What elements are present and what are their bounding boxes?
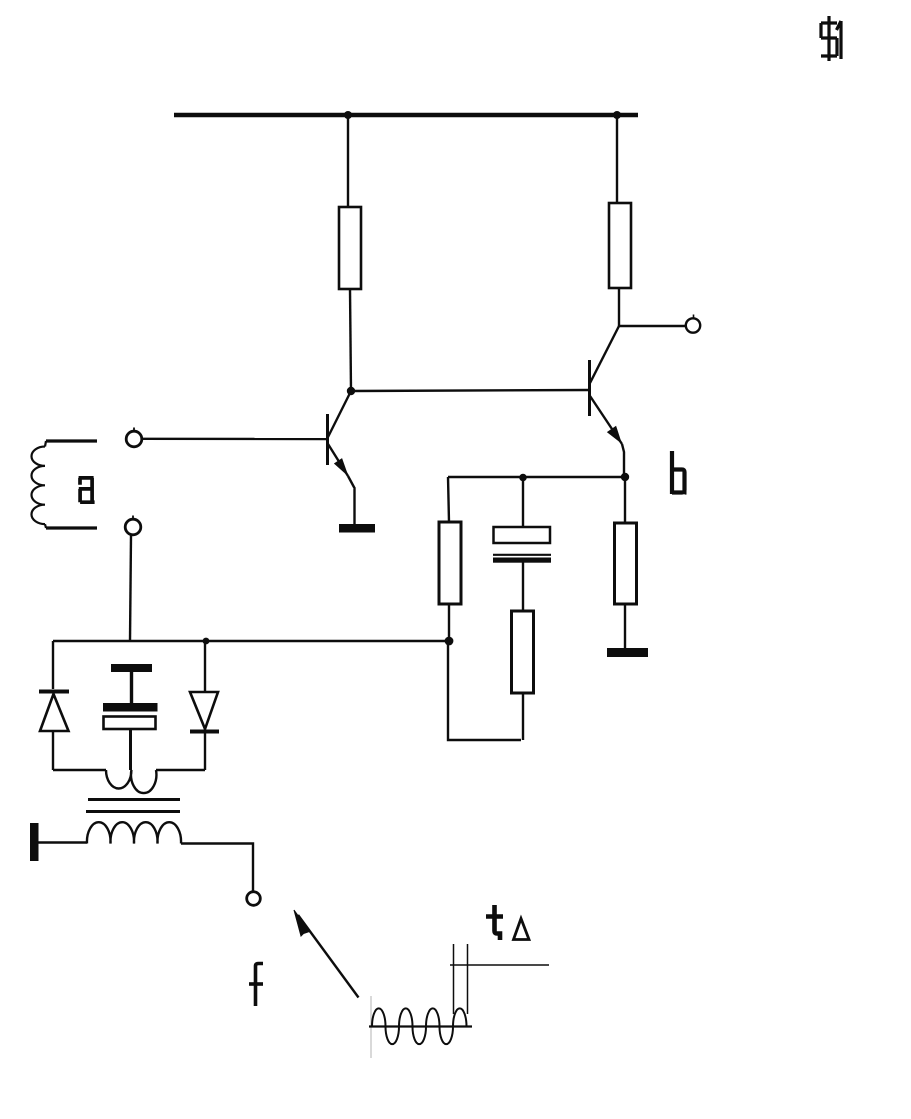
resistor R4: [512, 611, 534, 693]
inductor primary: [87, 822, 181, 843]
wire base bus Q1-Q2: [351, 390, 589, 391]
terminal circle lower: [125, 519, 141, 535]
label f: [249, 964, 263, 1007]
terminal output circle: [686, 318, 700, 332]
wire R5 stem: [624, 477, 626, 523]
mid wire y477: [448, 476, 625, 478]
wire R4 down: [522, 693, 524, 740]
wire input to Q1 base: [142, 438, 327, 441]
node dot at R3 branch: [445, 637, 454, 646]
inductor a: [31, 441, 97, 528]
transistor Q1: [328, 391, 356, 489]
resistor R2: [609, 203, 631, 288]
sine wave axis: [369, 1025, 472, 1027]
label a: [79, 478, 95, 502]
wire terminal to primary: [39, 841, 88, 844]
wire node down and right: [448, 641, 521, 740]
wire lower terminal down: [130, 535, 131, 641]
wire output stub: [619, 325, 686, 327]
label $1: [821, 16, 841, 61]
power rail: [174, 113, 638, 118]
wire primary to terminal f: [181, 844, 253, 892]
wire C1 stem: [522, 477, 524, 527]
diode D2 right: [190, 641, 219, 770]
dimension vertical lines: [453, 944, 455, 1014]
dimension horizontal line: [450, 964, 549, 966]
transistor Q2: [590, 326, 625, 477]
wire R2 to output: [618, 288, 620, 326]
wire mid-left horizontal: [53, 640, 449, 642]
ground right: [607, 648, 648, 657]
tick above output circle: [693, 315, 695, 319]
wire R1 to node: [350, 289, 351, 391]
wire R5 to ground: [624, 604, 626, 648]
resistor R3: [439, 522, 461, 604]
resistor R5: [615, 523, 637, 604]
node junction rail-left: [344, 111, 352, 119]
capacitor C1 bottom plate: [493, 554, 551, 556]
diode D1 left: [39, 641, 69, 770]
node dot R5 top: [621, 473, 629, 481]
label b: [672, 451, 687, 494]
sine wave: [372, 1008, 467, 1044]
resistor R1: [339, 207, 361, 289]
transformer core: [88, 798, 180, 801]
label delta: [514, 919, 530, 940]
node junction rail-right: [613, 111, 621, 119]
wire rail to R2: [616, 115, 618, 203]
arrow annotation: [294, 910, 359, 998]
wire C1 to R4: [522, 563, 524, 612]
wire Q1 emitter to ground: [353, 489, 355, 524]
label t: [486, 905, 503, 940]
node collector Q1: [347, 387, 355, 395]
tick above lower circle: [132, 516, 134, 520]
capacitor C1 top plate: [494, 527, 551, 543]
wire to R3: [448, 477, 449, 522]
node dot mid-left: [203, 638, 210, 645]
terminal input circle top: [126, 431, 142, 447]
node dot C1 top: [519, 474, 527, 482]
tick above input circle: [133, 428, 135, 432]
terminal circle f: [247, 892, 261, 906]
terminal bar left: [30, 823, 39, 861]
wire R3 to node: [448, 604, 450, 641]
wire rail to R1: [347, 115, 349, 207]
varactor stack middle: [103, 664, 158, 770]
faint axis line: [370, 996, 372, 1058]
wire bottom loop with secondary winding: [53, 770, 205, 793]
ground Q1: [339, 524, 375, 533]
